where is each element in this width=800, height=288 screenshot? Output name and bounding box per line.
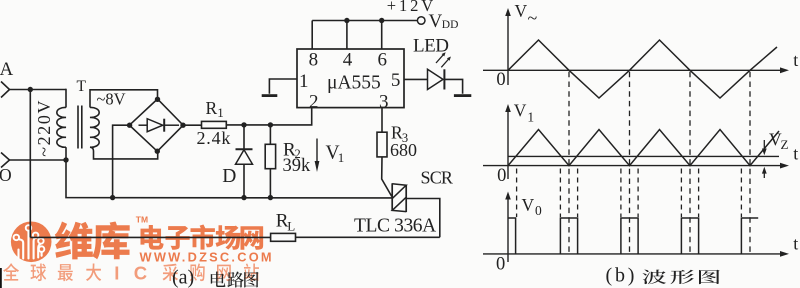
pin 6 <box>377 21 387 71</box>
waveform V1 rectified <box>508 130 779 166</box>
label VZ <box>769 130 789 153</box>
axis V~ vertical <box>505 8 511 85</box>
resistor R3 <box>377 132 392 196</box>
dashed pulse edge 2 <box>559 169 561 218</box>
dashed pulse edge 8 <box>740 169 742 218</box>
svg-text:V: V <box>515 1 528 21</box>
label t (V0) <box>793 234 798 254</box>
bridge rectifier B1 <box>129 99 183 151</box>
label RL <box>276 211 296 234</box>
label ~8V <box>97 90 126 109</box>
label 0 (V0) <box>496 254 505 274</box>
label 0 (V1) <box>497 166 506 186</box>
svg-text:WWW.DZSC.COM: WWW.DZSC.COM <box>140 250 274 265</box>
svg-text:O: O <box>0 165 12 185</box>
svg-text:L: L <box>287 218 295 233</box>
dashed pulse edge 3 <box>577 169 579 218</box>
terminal +12V <box>417 17 425 25</box>
watermark 维库 <box>55 221 130 259</box>
pin 3 <box>379 91 389 112</box>
label D <box>222 166 236 187</box>
led LED <box>428 69 445 89</box>
pin 8 <box>309 21 319 71</box>
pin 2 <box>309 91 319 112</box>
led arrows <box>436 52 451 67</box>
svg-text:DD: DD <box>442 19 459 31</box>
wire bottom rail right <box>296 236 440 238</box>
svg-text:1: 1 <box>217 105 224 120</box>
op-amp U1 uA555 box <box>297 49 404 108</box>
svg-text:I: I <box>114 263 119 284</box>
triac SCR TLC336A <box>392 183 406 212</box>
dashed line crossing 2 <box>629 72 631 254</box>
svg-text:3: 3 <box>379 91 389 112</box>
axis V1 horizontal <box>483 163 789 169</box>
wire O <box>10 159 67 161</box>
wire ground rail <box>66 160 392 198</box>
svg-text:D: D <box>222 166 236 187</box>
axis V~ horizontal <box>483 67 789 73</box>
label SCR <box>421 168 453 188</box>
label O <box>0 165 12 185</box>
wire secondary bottom <box>90 147 158 159</box>
wire R1 rail <box>226 108 311 125</box>
label LED <box>413 36 448 57</box>
label V~ <box>515 1 538 28</box>
axis V0 horizontal <box>483 251 789 257</box>
svg-text:TLC 336A: TLC 336A <box>354 216 436 237</box>
svg-text:t: t <box>793 50 798 70</box>
label 0 (V~) <box>496 70 505 90</box>
label 39k <box>283 156 312 176</box>
terminal O <box>1 153 10 168</box>
pin 1 <box>299 71 309 92</box>
watermark logo <box>11 222 52 263</box>
axis V1 vertical <box>505 104 511 179</box>
junction rail 3 <box>268 195 273 200</box>
label VDD <box>429 11 459 32</box>
watermark url <box>140 250 274 265</box>
label ~220V <box>34 99 54 157</box>
axis V0 vertical <box>505 192 511 263</box>
annotation V1 arrow <box>315 139 320 173</box>
wire primary top <box>65 89 67 108</box>
svg-text:0: 0 <box>496 70 505 90</box>
wire left vertical <box>29 90 31 238</box>
svg-text:~220V: ~220V <box>34 99 54 157</box>
junction bridge bottom <box>155 149 160 154</box>
resistor R2 <box>265 125 275 198</box>
label R3 <box>391 122 408 144</box>
label TLC336A <box>354 216 436 237</box>
label 680 <box>390 140 417 160</box>
junction bridge top <box>155 97 160 102</box>
svg-text:SCR: SCR <box>421 168 453 188</box>
caption b <box>606 265 720 287</box>
wire A <box>10 89 67 91</box>
dashed line crossing 1 <box>568 72 570 254</box>
dashed line crossing 4 <box>749 72 751 254</box>
waveform V0 pulse 2 <box>560 218 577 254</box>
svg-text:t: t <box>793 234 798 254</box>
label uA555 <box>327 73 381 94</box>
resistor R1 <box>202 121 227 128</box>
wire triac right <box>406 199 440 238</box>
svg-text:T: T <box>77 78 87 95</box>
junction O-primary <box>63 157 68 162</box>
junction Vdd 6 <box>379 18 384 23</box>
junction bridge right <box>180 123 185 128</box>
svg-text:4: 4 <box>343 49 353 70</box>
svg-text:(a): (a) <box>172 267 194 288</box>
junction R2 <box>268 122 273 127</box>
junction bridge left <box>127 123 132 128</box>
waveform V0 pulse 3 <box>621 218 638 254</box>
pin 4 <box>343 21 353 71</box>
pin 5 <box>391 70 401 91</box>
svg-text:~8V: ~8V <box>97 90 126 109</box>
wire secondary top <box>90 90 158 108</box>
waveform V0 pulse 1 <box>508 218 516 254</box>
annotation VZ arrows <box>762 140 767 178</box>
label 2.4k <box>197 128 232 148</box>
label T <box>77 78 87 95</box>
ground LED <box>454 94 471 97</box>
svg-text:0: 0 <box>535 203 542 218</box>
dashed pulse edge 4 <box>620 169 622 218</box>
svg-text:1: 1 <box>527 110 534 125</box>
junction D <box>241 122 246 127</box>
dashed pulse edge 5 <box>637 169 639 218</box>
wire bridge right <box>183 124 201 126</box>
svg-text:R: R <box>206 98 218 118</box>
svg-text:0: 0 <box>496 254 505 274</box>
label t (V1) <box>793 144 798 164</box>
wire bottom rail left <box>30 236 270 238</box>
svg-text:t: t <box>793 144 798 164</box>
svg-text:A: A <box>0 59 14 80</box>
waveform V~ triangle <box>508 40 777 98</box>
svg-text:0: 0 <box>497 166 506 186</box>
junction A <box>28 87 33 92</box>
ground pin1 <box>262 94 278 97</box>
wire pin5 LED <box>404 78 428 80</box>
resistor RL <box>271 233 296 241</box>
wire LED ground <box>444 79 462 93</box>
svg-text:~: ~ <box>528 8 538 28</box>
wire Vdd rail <box>312 20 417 22</box>
svg-text:V: V <box>514 101 527 121</box>
svg-text:μA555: μA555 <box>327 73 381 94</box>
watermark slogan row <box>3 263 259 284</box>
svg-text:Z: Z <box>781 137 789 152</box>
label V1 <box>326 142 345 165</box>
svg-text:2.4k: 2.4k <box>197 128 232 148</box>
dashed pulse edge 7 <box>698 169 700 218</box>
svg-text:6: 6 <box>377 50 387 71</box>
transformer T primary <box>57 107 66 147</box>
wire bridge left down <box>113 125 130 197</box>
svg-text:680: 680 <box>390 140 417 160</box>
label R2 <box>283 140 301 161</box>
label +12V <box>387 0 436 15</box>
watermark 电子市场网 <box>141 224 264 249</box>
waveform V0 pulse 4 <box>681 218 698 254</box>
svg-text:1: 1 <box>299 71 309 92</box>
dashed pulse edge 6 <box>680 169 682 218</box>
junction rail 2 <box>241 195 246 200</box>
transformer T secondary <box>90 107 99 147</box>
watermark TM <box>136 215 148 225</box>
wire primary bottom <box>65 147 67 160</box>
label V1 (wave) <box>514 101 534 125</box>
svg-text:V: V <box>522 195 535 215</box>
svg-text:39k: 39k <box>283 156 312 176</box>
label t (V~) <box>793 50 798 70</box>
svg-text:8: 8 <box>309 50 319 71</box>
junction Vdd 4 <box>344 18 349 23</box>
caption a <box>172 267 259 288</box>
edge mark <box>0 268 2 288</box>
terminal A <box>1 82 10 98</box>
svg-text:1: 1 <box>338 150 345 165</box>
transformer core <box>78 106 82 149</box>
label A <box>0 59 14 80</box>
diode D <box>236 125 253 198</box>
label R1 <box>206 98 224 120</box>
svg-text:V: V <box>429 11 443 32</box>
dashed line crossing 3 <box>689 72 691 254</box>
junction rail 1 <box>110 195 115 200</box>
svg-text:LED: LED <box>413 36 448 57</box>
svg-text:2: 2 <box>309 91 319 112</box>
waveform V0 pulse 5 <box>741 218 758 254</box>
dashed pulse edge 1 <box>516 169 518 218</box>
svg-text:(b): (b) <box>606 265 638 287</box>
wire pin1 ground <box>269 79 297 94</box>
svg-text:C: C <box>134 263 147 284</box>
node VZ line <box>508 155 779 157</box>
wire pin3 <box>381 108 383 133</box>
svg-text:TM: TM <box>136 215 148 225</box>
label V0 (wave) <box>522 195 543 218</box>
svg-text:5: 5 <box>391 70 401 91</box>
